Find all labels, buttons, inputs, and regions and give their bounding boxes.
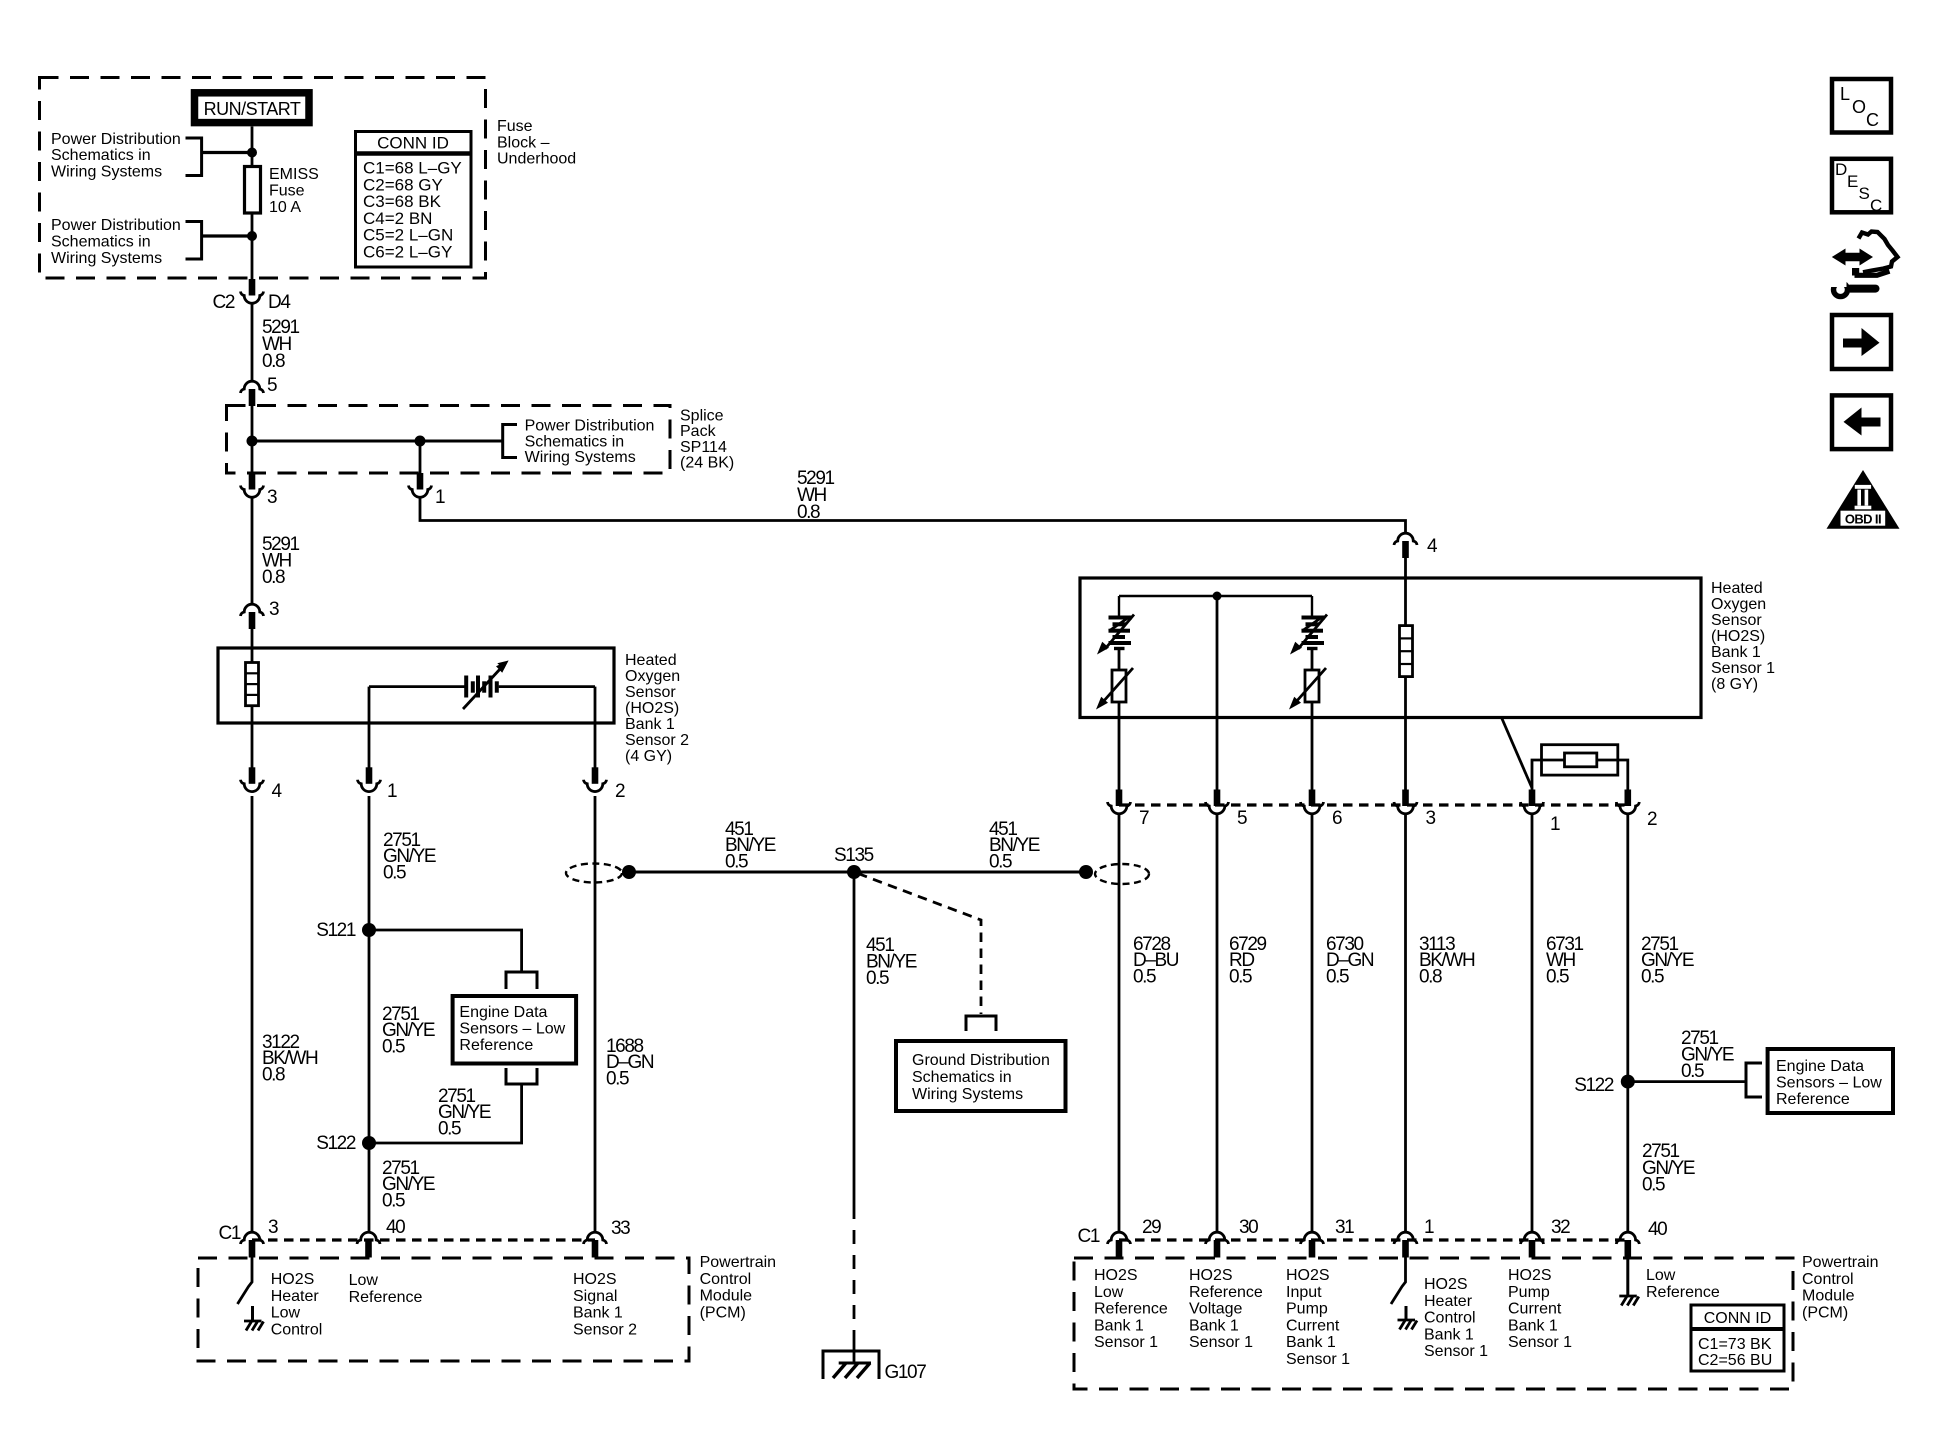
icon LOC box (1832, 79, 1891, 133)
svg-text:0.5: 0.5 (725, 851, 748, 872)
wire into splice (251, 406, 254, 474)
svg-text:C6=2 L–GY: C6=2 L–GY (363, 243, 452, 262)
connector 1 splice out (409, 473, 432, 497)
connector pin 33 PCM (584, 1232, 607, 1257)
fuse EMISS 10A (245, 167, 261, 214)
wire internal top bus (1119, 595, 1312, 597)
connector pin 4 HO2S2 (241, 767, 264, 791)
svg-text:0.5: 0.5 (382, 1190, 405, 1211)
connector pin 1 HO2S2 (358, 767, 381, 791)
svg-text:1: 1 (1550, 814, 1560, 835)
bracket power distribution splice (503, 425, 517, 458)
svg-text:0.5: 0.5 (1641, 966, 1664, 987)
svg-text:Reference: Reference (1094, 1301, 1168, 1318)
left PCM pin row dashed (252, 1238, 595, 1241)
svg-text:Bank 1: Bank 1 (1189, 1317, 1239, 1334)
svg-text:Wiring Systems: Wiring Systems (912, 1086, 1023, 1103)
wire 1688 pin2 to PCM pin33 (594, 796, 597, 1232)
node S121 (362, 923, 376, 937)
svg-text:Low: Low (271, 1305, 301, 1322)
diagonal sensor output to pin 1 (1502, 718, 1532, 788)
wire junction1 to bracket (202, 151, 252, 154)
svg-text:(HO2S): (HO2S) (1711, 628, 1765, 645)
variable resistor 2 (1289, 668, 1326, 710)
ground switch pin1 right (1398, 1306, 1418, 1330)
svg-text:30: 30 (1239, 1217, 1258, 1238)
node junction 2 (247, 231, 257, 241)
svg-text:Bank 1: Bank 1 (1424, 1326, 1474, 1343)
shield ellipse right (1095, 864, 1149, 884)
svg-text:Schematics in: Schematics in (525, 433, 625, 450)
ground pin40 low reference (1619, 1258, 1639, 1306)
wire heater2 drop (1311, 596, 1313, 616)
connector pin 30 PCM (1206, 1232, 1229, 1257)
svg-text:HO2S: HO2S (1508, 1267, 1552, 1284)
svg-text:0.5: 0.5 (1326, 966, 1349, 987)
bracket engine data bottom (506, 1068, 537, 1084)
heater element 1 (1097, 615, 1134, 655)
svg-text:7: 7 (1139, 808, 1149, 829)
svg-text:Reference: Reference (1646, 1284, 1720, 1301)
bracket power distribution 2 (186, 222, 202, 260)
svg-text:Pack: Pack (680, 423, 717, 440)
svg-text:Schematics in: Schematics in (51, 147, 151, 164)
svg-text:Bank 1: Bank 1 (1286, 1334, 1336, 1351)
CONN ID table PCM (1691, 1305, 1784, 1371)
icon schematic navigation (hand/arrows/wrench) (1831, 232, 1898, 297)
svg-text:HO2S: HO2S (1094, 1267, 1138, 1284)
svg-text:(4 GY): (4 GY) (625, 748, 672, 765)
node shield drain left (622, 865, 636, 879)
node top bus (1213, 592, 1222, 601)
connector pin 7 HO2S1 (1108, 790, 1131, 814)
svg-text:Wiring Systems: Wiring Systems (51, 163, 162, 180)
O2 sensor variable voltage cell (463, 661, 509, 710)
svg-text:Heater: Heater (1424, 1293, 1473, 1310)
svg-text:Module: Module (700, 1288, 753, 1305)
svg-text:HO2S: HO2S (1424, 1276, 1468, 1293)
svg-text:SP114: SP114 (680, 439, 727, 456)
svg-text:HO2S: HO2S (573, 1271, 617, 1288)
svg-text:Low: Low (349, 1272, 379, 1289)
svg-text:Engine Data: Engine Data (1776, 1058, 1864, 1075)
node S122 (362, 1136, 376, 1150)
svg-text:0.5: 0.5 (382, 1036, 405, 1057)
wire S135 to G107 solid (853, 872, 856, 1205)
bracket engine data right (1746, 1063, 1762, 1097)
svg-text:Sensor 1: Sensor 1 (1094, 1334, 1158, 1351)
wire 2751 pin1 down (368, 796, 371, 1232)
resistor in line 3 (1400, 626, 1413, 677)
svg-text:2: 2 (1647, 809, 1657, 830)
wire sensor cell riser pin1 (368, 687, 371, 768)
wire 5291 to right sensor (420, 498, 1406, 534)
icon DESC box (1832, 159, 1891, 215)
svg-text:Low: Low (1646, 1267, 1676, 1284)
svg-text:Heated: Heated (1711, 580, 1763, 597)
svg-text:Block –: Block – (497, 134, 550, 151)
splice pack SP114 dashed box (227, 406, 671, 474)
heater element 2 (1290, 615, 1327, 655)
svg-text:S121: S121 (316, 920, 356, 941)
svg-text:40: 40 (1648, 1219, 1667, 1240)
svg-text:3: 3 (268, 1217, 278, 1238)
svg-text:3: 3 (267, 487, 277, 508)
svg-text:S: S (1859, 184, 1870, 203)
svg-text:Sensor 1: Sensor 1 (1424, 1343, 1488, 1360)
bracket ground distribution (966, 1016, 996, 1031)
svg-text:2: 2 (615, 781, 625, 802)
svg-text:Current: Current (1286, 1317, 1340, 1334)
heater resistor element left sensor (246, 663, 259, 706)
connector pin 40 PCM (357, 1232, 380, 1257)
svg-text:Oxygen: Oxygen (1711, 596, 1766, 613)
switch HO2S heater control (1391, 1258, 1406, 1305)
bracket power distribution 1 (186, 138, 202, 176)
svg-text:0.5: 0.5 (1681, 1061, 1704, 1082)
svg-text:10 A: 10 A (269, 199, 301, 216)
dashed pin row right sensor (1119, 803, 1628, 806)
variable resistor 1 (1096, 668, 1133, 710)
shield ellipse left (566, 864, 622, 883)
svg-text:0.5: 0.5 (606, 1068, 629, 1089)
connector pin 3 PCM C1 (241, 1232, 264, 1257)
wire C2 to conn 5 (251, 304, 254, 382)
svg-text:Pump: Pump (1286, 1301, 1328, 1318)
wire splice to conn 1 (419, 441, 422, 473)
right PCM pin row dashed (1119, 1238, 1628, 1241)
wire resistor to pin3 (1404, 677, 1407, 790)
svg-text:Control: Control (1424, 1310, 1476, 1327)
svg-text:Engine Data: Engine Data (459, 1004, 547, 1021)
svg-text:3: 3 (269, 599, 279, 620)
svg-text:Wiring Systems: Wiring Systems (51, 250, 162, 267)
svg-text:Module: Module (1802, 1288, 1855, 1305)
svg-text:Sensor 1: Sensor 1 (1189, 1334, 1253, 1351)
svg-text:RUN/START: RUN/START (204, 99, 301, 119)
svg-text:S122: S122 (1574, 1075, 1614, 1096)
svg-text:OBD II: OBD II (1845, 512, 1881, 527)
svg-text:0.8: 0.8 (262, 351, 285, 372)
svg-text:Input: Input (1286, 1284, 1322, 1301)
svg-text:O: O (1852, 97, 1866, 117)
connector pin 40 PCM right (1616, 1232, 1639, 1257)
node splice left (247, 436, 258, 447)
svg-text:Wiring Systems: Wiring Systems (525, 449, 636, 466)
dashed branch S135 to ground distribution (858, 874, 981, 1015)
svg-text:C1: C1 (219, 1223, 241, 1244)
svg-text:HO2S: HO2S (1286, 1267, 1330, 1284)
fuse block underhood dashed box (40, 78, 486, 279)
wire bracket to S122 (369, 1084, 522, 1143)
svg-text:Heater: Heater (271, 1288, 320, 1305)
svg-text:C2: C2 (213, 292, 235, 313)
node S135 (847, 865, 861, 879)
svg-text:Bank 1: Bank 1 (1094, 1317, 1144, 1334)
svg-text:CONN ID: CONN ID (377, 134, 449, 153)
svg-text:0.8: 0.8 (1419, 966, 1442, 987)
svg-text:Voltage: Voltage (1189, 1301, 1242, 1318)
svg-text:HO2S: HO2S (1189, 1267, 1233, 1284)
svg-text:Reference: Reference (1189, 1284, 1263, 1301)
svg-text:Control: Control (700, 1271, 752, 1288)
wire pin3 through heater to pin 4 (251, 706, 254, 768)
svg-text:Power Distribution: Power Distribution (525, 418, 655, 435)
node junction 1 (247, 148, 257, 158)
svg-text:1: 1 (435, 487, 445, 508)
node splice right (415, 436, 426, 447)
svg-text:Fuse: Fuse (269, 182, 305, 199)
wire 451 horizontal (629, 871, 1086, 874)
wire 6730 pin6 to PCM31 (1311, 814, 1314, 1232)
wire 6729 pin5 to PCM30 (1216, 814, 1219, 1232)
svg-text:(24 BK): (24 BK) (680, 455, 734, 472)
icon arrow left box (1832, 395, 1891, 449)
svg-text:33: 33 (611, 1218, 630, 1239)
wire splice horizontal (252, 440, 503, 443)
svg-text:1: 1 (387, 781, 397, 802)
connector pin 32 PCM (1521, 1232, 1544, 1257)
CONN ID table fuse block (356, 132, 472, 268)
svg-text:6: 6 (1332, 808, 1342, 829)
svg-text:Pump: Pump (1508, 1284, 1550, 1301)
svg-text:HO2S: HO2S (271, 1271, 315, 1288)
icon OBD II triangle (1827, 470, 1900, 529)
svg-text:Bank 1: Bank 1 (1711, 644, 1761, 661)
svg-text:(PCM): (PCM) (700, 1304, 746, 1321)
wire conn4 into HO2S1 box (1404, 558, 1407, 626)
svg-text:Oxygen: Oxygen (625, 668, 680, 685)
svg-text:Ground Distribution: Ground Distribution (912, 1052, 1050, 1069)
svg-text:Power Distribution: Power Distribution (51, 217, 181, 234)
svg-text:S122: S122 (316, 1133, 356, 1154)
svg-text:(PCM): (PCM) (1802, 1304, 1848, 1321)
svg-text:C: C (1870, 196, 1882, 215)
node S122 right (1621, 1075, 1635, 1089)
svg-text:Reference: Reference (1776, 1091, 1850, 1108)
svg-text:0.8: 0.8 (797, 502, 820, 523)
wire junction2 to bracket (202, 234, 252, 237)
wire sensor cell horizontal (369, 685, 465, 688)
wire 3122 pin4 to PCM pin3 (251, 796, 254, 1232)
svg-text:Heated: Heated (625, 652, 677, 669)
svg-text:1: 1 (1424, 1217, 1434, 1238)
svg-text:Sensor 1: Sensor 1 (1711, 660, 1775, 677)
svg-text:0.5: 0.5 (866, 968, 889, 989)
svg-text:3: 3 (1426, 808, 1436, 829)
svg-text:0.8: 0.8 (262, 567, 285, 588)
svg-text:D: D (1835, 160, 1847, 179)
svg-text:Sensor 2: Sensor 2 (573, 1321, 637, 1338)
svg-text:Control: Control (271, 1321, 323, 1338)
svg-text:Powertrain: Powertrain (700, 1254, 776, 1271)
svg-text:0.5: 0.5 (989, 851, 1012, 872)
svg-text:L: L (1840, 84, 1850, 104)
svg-text:Sensor 1: Sensor 1 (1508, 1334, 1572, 1351)
switch RUN/START (195, 93, 310, 123)
svg-text:5: 5 (267, 375, 277, 396)
svg-text:Sensor: Sensor (1711, 612, 1762, 629)
svg-text:G107: G107 (885, 1362, 927, 1383)
connector pin 6 HO2S1 (1301, 790, 1324, 814)
connector C2 pin D4 (241, 279, 264, 303)
connector pin 29 PCM C1 (1108, 1232, 1131, 1257)
bracket engine data top (506, 972, 537, 989)
svg-text:0.5: 0.5 (383, 862, 406, 883)
PCM right dashed box (1074, 1258, 1793, 1389)
connector pin 2 HO2S2 (584, 767, 607, 791)
wire 2751 pin2 to PCM40 (1626, 814, 1629, 1232)
connector 5 (241, 381, 264, 406)
calibration resistor assembly (1532, 745, 1628, 790)
svg-text:C2=56 BU: C2=56 BU (1698, 1352, 1772, 1369)
svg-text:0.5: 0.5 (1642, 1175, 1665, 1196)
wire S135 dashed to G107 (853, 1205, 856, 1341)
connector pin 2 HO2S1 (1616, 790, 1639, 814)
svg-text:40: 40 (386, 1217, 405, 1238)
box Ground Distribution (896, 1041, 1066, 1111)
svg-text:Current: Current (1508, 1301, 1562, 1318)
svg-text:C: C (1866, 110, 1879, 130)
ground G107 (823, 1351, 879, 1379)
ground switch pin3 (244, 1306, 264, 1331)
svg-text:Control: Control (1802, 1271, 1854, 1288)
node shield drain right (1079, 865, 1093, 879)
svg-text:Low: Low (1094, 1284, 1124, 1301)
svg-text:Sensor: Sensor (625, 684, 676, 701)
svg-text:Schematics in: Schematics in (51, 233, 151, 250)
PCM left dashed box (198, 1258, 689, 1361)
connector pin 5 HO2S1 (1206, 790, 1229, 814)
svg-text:Underhood: Underhood (497, 151, 576, 168)
svg-text:0.8: 0.8 (262, 1064, 285, 1085)
svg-text:Fuse: Fuse (497, 118, 533, 135)
svg-text:Reference: Reference (459, 1037, 533, 1054)
svg-text:Power Distribution: Power Distribution (51, 131, 181, 148)
svg-text:0.5: 0.5 (1546, 966, 1569, 987)
svg-text:D4: D4 (268, 292, 291, 313)
svg-text:Signal: Signal (573, 1288, 617, 1305)
switch HO2S heater low control (238, 1258, 253, 1305)
wire 3113 pin3 to PCM1 (1404, 814, 1407, 1232)
wire 6728 pin7 to PCM29 (1118, 814, 1121, 1232)
HO2S Bank1 Sensor1 box (1080, 578, 1701, 718)
svg-text:CONN ID: CONN ID (1704, 1310, 1772, 1327)
svg-text:(8 GY): (8 GY) (1711, 676, 1758, 693)
svg-text:Sensors – Low: Sensors – Low (459, 1021, 565, 1038)
connector 3 at HO2S (241, 604, 264, 629)
svg-text:E: E (1847, 172, 1858, 191)
svg-text:Schematics in: Schematics in (912, 1069, 1012, 1086)
wire sensor cell riser pin2 (594, 687, 597, 768)
svg-text:0.5: 0.5 (1133, 966, 1156, 987)
connector pin 1 HO2S1 (1521, 790, 1544, 814)
connector pin 1 PCM (1394, 1232, 1417, 1257)
svg-text:Bank 1: Bank 1 (573, 1305, 623, 1322)
wire fuse to junction 2 (251, 213, 254, 280)
svg-text:29: 29 (1142, 1217, 1161, 1238)
svg-text:Bank 1: Bank 1 (625, 716, 675, 733)
svg-text:Sensor 2: Sensor 2 (625, 732, 689, 749)
wire 6731 pin1 to PCM32 (1531, 814, 1534, 1232)
svg-text:Powertrain: Powertrain (1802, 1254, 1878, 1271)
connector pin 31 PCM (1301, 1232, 1324, 1257)
icon arrow right box (1832, 315, 1891, 369)
wire pin5 riser (1216, 596, 1219, 790)
connector 4 (1394, 533, 1417, 558)
wire S121 to bracket (369, 930, 522, 972)
svg-text:5: 5 (1237, 808, 1247, 829)
svg-text:0.5: 0.5 (1229, 966, 1252, 987)
svg-text:Splice: Splice (680, 407, 724, 424)
svg-text:Sensor 1: Sensor 1 (1286, 1351, 1350, 1368)
HO2S Bank1 Sensor2 box (218, 648, 614, 723)
svg-text:S135: S135 (834, 845, 874, 866)
svg-text:0.5: 0.5 (438, 1118, 461, 1139)
svg-text:(HO2S): (HO2S) (625, 700, 679, 717)
connector pin 3 HO2S1 (1394, 790, 1417, 814)
svg-text:EMISS: EMISS (269, 166, 319, 183)
svg-text:C1: C1 (1078, 1226, 1100, 1247)
svg-text:32: 32 (1551, 1217, 1570, 1238)
box Engine Data Sensors Low Reference (453, 996, 576, 1064)
svg-text:31: 31 (1335, 1217, 1354, 1238)
box Engine Data right (1768, 1049, 1893, 1113)
wire heater1 drop (1118, 596, 1120, 616)
svg-text:Bank 1: Bank 1 (1508, 1317, 1558, 1334)
svg-text:Sensors – Low: Sensors – Low (1776, 1074, 1882, 1091)
wire S122 to bracket right (1628, 1080, 1746, 1083)
svg-text:Reference: Reference (349, 1289, 423, 1306)
wire RUN/START to fuse (251, 127, 254, 168)
connector 3 splice out (241, 473, 264, 497)
svg-text:C1=73 BK: C1=73 BK (1698, 1336, 1772, 1353)
